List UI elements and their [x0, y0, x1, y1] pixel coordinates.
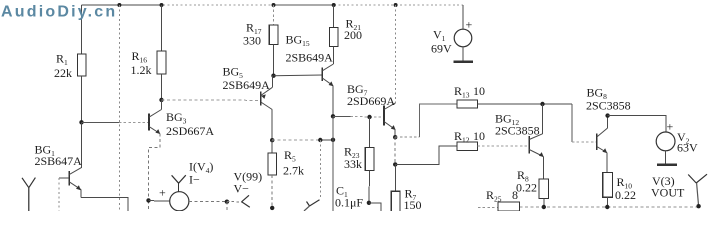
label V(3) VOUT [651, 174, 685, 200]
wire top rail [82, 4, 464, 6]
node dot F1 (probe tap) [318, 138, 322, 142]
svg-text:330: 330 [243, 34, 261, 48]
svg-text:+: + [667, 120, 674, 134]
node dot I (R23 bottom) [367, 201, 371, 205]
node dot rail-R10 [605, 205, 609, 209]
resistor R12 [454, 129, 529, 150]
probe V(99) [227, 170, 262, 208]
node dot rail-R8 [542, 205, 546, 209]
transistor BG7 2SD669A [347, 82, 396, 137]
wire BG5 base [162, 99, 261, 101]
resistor R21 [329, 5, 362, 64]
svg-text:0.22: 0.22 [516, 181, 537, 195]
svg-text:R1: R1 [56, 52, 68, 68]
wire J down to K [394, 137, 396, 164]
node dot G (BG15 emitter/BG7 base line) [331, 114, 335, 118]
wire bottom rail [478, 206, 699, 209]
resistor R17 [243, 5, 278, 76]
node dot rail-x120 [117, 3, 121, 7]
wire BG7 collector [395, 5, 397, 103]
svg-text:R5: R5 [284, 148, 296, 164]
svg-text:10: 10 [473, 84, 485, 98]
svg-text:2SB649A: 2SB649A [223, 78, 271, 92]
svg-text:2SB649A: 2SB649A [286, 51, 334, 65]
resistor R1 [54, 5, 86, 122]
wire M to V2 [608, 116, 666, 132]
wire BG3 base [82, 121, 149, 123]
node dot C (tail) [146, 198, 150, 202]
probe on current source [172, 175, 186, 191]
node dot F (C1 branch) [331, 138, 335, 142]
svg-text:BG15: BG15 [286, 33, 310, 49]
transistor BG8 2SC3858 [586, 86, 631, 154]
node dot K (R7/R12 tap) [393, 162, 397, 166]
wire vertical net x119 [118, 5, 120, 211]
probe VOUT [688, 174, 707, 206]
node dot D (R17/BG5 emitter/BG15 base) [271, 74, 275, 78]
svg-text:2.7k: 2.7k [283, 164, 304, 178]
wire BG1 emitter [81, 198, 128, 212]
ground V2 [657, 164, 677, 167]
wire mid line E to F [272, 139, 333, 141]
wire F down C1 branch [332, 116, 334, 211]
svg-text:I−: I− [189, 173, 200, 187]
node dot R5 bottom [270, 206, 274, 210]
svg-text:2SD669A: 2SD669A [347, 94, 395, 108]
node dot E (BG5 collector/R5/mid line) [270, 138, 274, 142]
voltage source V2 [656, 116, 698, 165]
svg-text:1.2k: 1.2k [131, 63, 152, 77]
wire R13 line corner to BG8 base [572, 104, 597, 142]
current source I(V4) [149, 160, 214, 211]
node dot V99 [225, 200, 229, 204]
node dot J (BG7 emitter) [393, 135, 397, 139]
transistor BG1 2SB647A [35, 122, 83, 197]
probe input Y [22, 178, 35, 211]
node dot L (BG12 collector on R13 line) [540, 102, 544, 106]
watermark AudioDiy.cn [1, 4, 117, 21]
node dot rail-VOUT [696, 204, 700, 208]
resistor R13 [454, 84, 572, 108]
svg-text:33k: 33k [344, 157, 362, 171]
node dot H (R23 tap) [367, 115, 371, 119]
wire node V99 down [226, 202, 228, 211]
svg-text:VOUT: VOUT [651, 186, 685, 200]
wire R23 bottom jog [369, 203, 381, 211]
svg-text:2SD667A: 2SD667A [166, 124, 214, 138]
node dot M (BG8 collector) [605, 113, 609, 117]
svg-text:22k: 22k [54, 66, 72, 80]
resistor R7 [391, 164, 421, 212]
svg-text:R12: R12 [454, 129, 470, 145]
svg-text:2SB647A: 2SB647A [35, 154, 83, 168]
transistor BG5 2SB649A [223, 65, 273, 141]
node dot rail-BG7 [394, 3, 398, 7]
resistor R25 [486, 188, 520, 211]
resistor R8 [516, 157, 549, 208]
resistor R10 [603, 153, 636, 207]
node dot B (R16/BG3 collector/BG5 base) [159, 98, 163, 102]
resistor R23 [344, 117, 374, 203]
node dot A (R1/BG3 base/BG1 collector) [79, 120, 83, 124]
node dot rail-R17 [272, 3, 276, 7]
svg-text:2SC3858: 2SC3858 [495, 124, 540, 138]
resistor R16 [131, 5, 166, 100]
resistor R5 [268, 140, 304, 208]
transistor BG15 2SB649A [286, 33, 334, 117]
svg-text:R13: R13 [454, 84, 470, 100]
svg-text:0.1μF: 0.1μF [335, 196, 363, 210]
svg-text:8: 8 [512, 188, 518, 202]
wire BG3 emitter [149, 134, 160, 212]
wire BG1 base down [58, 178, 60, 211]
svg-text:R25: R25 [486, 188, 502, 204]
svg-text:150: 150 [404, 198, 422, 211]
ground V1 [453, 60, 473, 63]
svg-text:0.22: 0.22 [615, 188, 636, 202]
svg-text:63V: 63V [677, 141, 698, 155]
svg-text:10: 10 [473, 129, 485, 143]
node dot rail-R21 [332, 3, 336, 7]
svg-text:2SC3858: 2SC3858 [586, 99, 631, 113]
wire BG15 base [274, 74, 323, 77]
wire K to R12 [395, 146, 457, 164]
svg-text:V−: V− [234, 182, 250, 196]
wire I source to node V99 [189, 201, 227, 203]
wire BG7 base line [333, 115, 384, 118]
svg-text:AudioDiy.cn: AudioDiy.cn [1, 4, 117, 21]
svg-text:69V: 69V [431, 42, 452, 56]
probe at tap [304, 200, 320, 211]
wire probe tap down [319, 140, 321, 200]
transistor BG3 2SD667A [149, 100, 214, 138]
capacitor C1 [335, 184, 363, 210]
voltage source V1 [431, 5, 473, 60]
svg-text:200: 200 [344, 28, 362, 42]
node dot rail-R16 [160, 3, 164, 7]
transistor BG12 2SC3858 [495, 104, 544, 157]
wire J to R13 [395, 104, 457, 137]
svg-text:+: + [159, 186, 166, 200]
